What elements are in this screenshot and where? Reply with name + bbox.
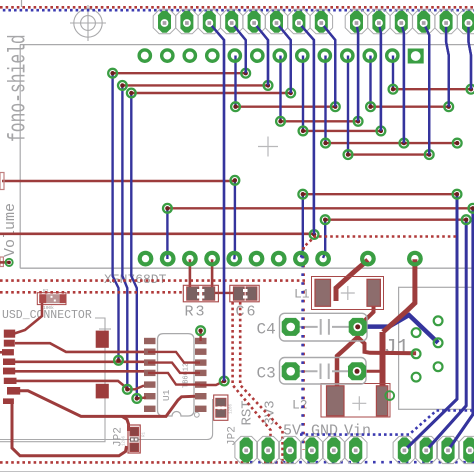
via V31 (123, 385, 132, 394)
connector USD pads (2, 330, 20, 404)
board outline bottom edge (20, 267, 474, 269)
wire pad d11 blue (277, 23, 291, 93)
resistor R2 (37, 288, 66, 311)
pad top header pin 7 (288, 10, 311, 34)
wire ring5 blue (234, 56, 236, 107)
wire sd7 red (20, 391, 195, 417)
via V20 (344, 150, 353, 159)
wire pad a1 blue (379, 23, 381, 131)
usd connector outline right (0, 318, 105, 442)
wire net8 red (303, 130, 381, 132)
wire volume via stub red (0, 261, 9, 264)
wire pad d13 blue (321, 23, 335, 107)
wire U1 jog3 red (148, 373, 200, 385)
wire ring Vin down red (383, 259, 415, 332)
keepout mid blue (301, 251, 304, 448)
ic U1 pin1 dot (194, 412, 199, 417)
svg-text:R3: R3 (185, 304, 207, 321)
origin cross A (258, 137, 278, 157)
wire ring9 blue (324, 56, 326, 144)
pad mid header pin 1 (140, 253, 152, 265)
svg-text:L2: L2 (292, 398, 308, 413)
pad socket row pin 2 (162, 50, 173, 61)
via V25 (163, 204, 172, 213)
pad J1 pin 6 (434, 362, 443, 371)
via V24 (453, 190, 462, 199)
resistor R5 (214, 395, 228, 420)
wire pad a2 blue (401, 23, 404, 143)
via V10 (331, 102, 340, 111)
pad mid header pin 4 (206, 253, 218, 265)
via V3 (118, 81, 127, 90)
svg-text:JP2: JP2 (227, 426, 239, 446)
pad mid header pin 3 (184, 253, 196, 265)
via V27 (321, 215, 330, 224)
pad bottom header2 pin 3 (437, 436, 460, 463)
wire pad d8 blue (209, 23, 224, 381)
wire left bus2 blue (122, 85, 127, 389)
pad J1 pin 3 (412, 373, 421, 382)
usd connector outline tick (99, 328, 111, 330)
pad socket row pin 9 (319, 50, 330, 61)
pad top header2 pin 2 (368, 10, 391, 34)
wire right bus1 blue (404, 194, 457, 450)
wire pad a3 blue (424, 23, 430, 155)
pad socket square pin 13 (408, 49, 424, 64)
pad holes bottom (401, 447, 452, 455)
via V12 (444, 102, 453, 111)
wire pad d10 blue (254, 23, 268, 85)
via V22 (231, 176, 240, 185)
pad mid header pin 8 (295, 253, 307, 265)
wire bar to J1 pin red (358, 337, 416, 353)
svg-text:1206: 1206 (123, 435, 127, 446)
wire volume red (2, 180, 235, 183)
wire mid2 blue (301, 194, 303, 257)
via V11 (366, 102, 375, 111)
board outline left edge (19, 45, 21, 269)
jp2 outline (0, 399, 213, 440)
via V33 (220, 377, 229, 386)
wire C4 to J1 blue (358, 315, 438, 343)
wire via to U1 p7 red (137, 396, 146, 399)
via V15 (299, 126, 308, 135)
pad top header pin 4 (220, 10, 243, 34)
wire net14 red (0, 233, 314, 236)
keepout top red (0, 6, 474, 9)
wire net10 red (348, 153, 429, 155)
pad top header2 pin 5 (435, 10, 458, 34)
wire U1 via stub red (199, 331, 201, 341)
wire bottom bus overlay (404, 399, 473, 450)
wire C3 to bar red (357, 370, 380, 373)
via V19 (453, 139, 462, 148)
fiducial target mark (70, 5, 106, 41)
pad J1 pin 4 (434, 316, 443, 325)
wire power bar red (380, 332, 386, 396)
capacitor C3 symbol (299, 364, 348, 380)
pad socket row pin 5 (229, 50, 240, 61)
wire net2 red (122, 84, 268, 86)
via V16 (377, 126, 386, 135)
wire ring to L1 red (336, 260, 368, 301)
svg-text:5V: 5V (283, 423, 301, 440)
wire net3 red (131, 92, 290, 94)
wire left bus1 blue (113, 73, 119, 360)
svg-text:3V3: 3V3 (263, 400, 279, 425)
capacitor C3 outline (280, 358, 367, 385)
wire U1 jog1 red (148, 352, 200, 363)
via V5 (127, 89, 136, 98)
pad bottom header pin 1 (235, 436, 258, 463)
svg-text:Volume: Volume (2, 203, 19, 257)
via volume (6, 259, 13, 266)
wire C4 to L2 red (337, 337, 358, 389)
wire R2 to SD1 red (14, 303, 42, 334)
pad socket row pin 12 (387, 50, 398, 61)
wire sd2 red (15, 343, 144, 352)
svg-text:100k: 100k (43, 305, 54, 311)
pad volume bottom (0, 257, 3, 267)
pad mid header pin 6 (251, 253, 263, 265)
via V6 (286, 89, 295, 98)
pad top header2 pin 4 (412, 10, 435, 34)
capacitor C6 (230, 285, 259, 302)
via V21 (425, 150, 434, 159)
wire pad d9 blue (232, 23, 246, 73)
wire ring R3b red (211, 259, 214, 288)
board outline top edge (20, 44, 474, 46)
wire net13 red (325, 218, 466, 220)
wire pad a4 blue (446, 23, 449, 107)
wire net1 red (113, 72, 246, 74)
pad C3 left (282, 362, 300, 380)
pad socket row pin 1 (139, 50, 150, 61)
inductor L2 (321, 384, 390, 418)
pad L2 via (385, 391, 394, 400)
pad top header pin 5 (243, 10, 266, 34)
pad mid header pin 10 (362, 253, 374, 265)
pad mid header pin 2 (162, 253, 174, 265)
wire pad a5 blue (469, 23, 472, 89)
via V2 (241, 69, 250, 78)
pad C4 right (349, 318, 367, 336)
wire ring10 blue (347, 56, 349, 155)
pad bottom header pin 5 (323, 436, 346, 463)
wire ring8 blue (302, 56, 304, 131)
svg-text:J1: J1 (384, 337, 409, 360)
wire mid3 blue (323, 220, 325, 258)
wire sd5 red (15, 370, 144, 373)
ic U1 pads (144, 338, 207, 412)
via V28 (462, 215, 471, 224)
pad bottom header pin 3 (279, 436, 302, 463)
pad mid header pin 7 (273, 253, 285, 265)
keepout bottom red (0, 461, 250, 464)
ic U1 body (158, 334, 195, 416)
capacitor C4 outline (280, 313, 368, 341)
connector J1 outline (399, 287, 474, 409)
via V9 (231, 102, 240, 111)
wire ring7 blue (279, 56, 281, 122)
wire ring12 blue (392, 56, 394, 90)
pad top header pin 8 (310, 10, 333, 34)
wire net5 red (236, 105, 336, 107)
wire sd4 red (15, 360, 144, 363)
keepout right red v (302, 247, 305, 450)
wire C4 down red (356, 327, 360, 337)
wire top pad traces overlay (209, 23, 471, 381)
wire sd3 stub red (0, 351, 13, 354)
pad bottom header pin 2 (257, 436, 280, 463)
pad socket row pin 8 (297, 50, 308, 61)
pad J1 pin 1 (412, 328, 421, 337)
keepout J1 blue (300, 411, 474, 435)
resistor R1 (128, 425, 140, 453)
pad top header pin 2 (176, 10, 199, 34)
via V4 (264, 81, 273, 90)
svg-text:U1: U1 (161, 389, 172, 401)
svg-text:1206: 1206 (230, 403, 234, 414)
wire right bus3 blue (448, 208, 473, 450)
pad bottom header pin 6 (344, 436, 367, 463)
pad socket row pin 7 (274, 50, 285, 61)
board outline top stub (21, 0, 23, 7)
keepout mid1 red (0, 279, 306, 282)
inductor L1 (312, 277, 384, 310)
keepout C6a red (233, 302, 271, 462)
wire net9 red (326, 142, 458, 144)
via V30 (114, 356, 123, 365)
pad socket row pin 10 (342, 50, 353, 61)
via V34 (196, 326, 205, 335)
pad J1 pin 2 (412, 349, 421, 358)
svg-text:C4: C4 (257, 321, 276, 339)
wire sd6 red (15, 381, 127, 389)
via V23 (298, 190, 307, 199)
wire left bus3 blue (131, 93, 137, 398)
svg-text:C3: C3 (257, 365, 276, 383)
pad C4 left (282, 318, 300, 336)
wire pad a0 blue (357, 23, 359, 121)
keepout top blue (3, 9, 474, 12)
pad socket row pin 6 (252, 50, 263, 61)
svg-text:GND: GND (311, 423, 338, 440)
via V18 (400, 139, 409, 148)
pad socket row pin 11 (364, 50, 375, 61)
via V29 (310, 230, 319, 239)
wire net12 red (167, 207, 473, 209)
keepout bottom blue (250, 461, 474, 464)
wire net6 red (371, 105, 449, 107)
pad bottom header pin 4 (301, 436, 324, 463)
wire via to U1 p6 red (127, 386, 144, 390)
resistor R3 (183, 285, 218, 302)
pad sd big2 (96, 384, 109, 399)
pad top header2 pin 6 (457, 10, 474, 34)
wire R3 to C6 red (215, 292, 233, 294)
wire net11 red (303, 193, 457, 195)
pad mid header pin 11 (409, 253, 421, 265)
svg-text:C6: C6 (236, 304, 258, 321)
svg-text:fono-shield: fono-shield (6, 34, 33, 142)
pad mid header pin 9 (317, 253, 329, 265)
via V14 (354, 117, 363, 126)
via V8 (467, 85, 474, 94)
pad top header pin 1 (153, 10, 176, 34)
wire net4 red (393, 88, 471, 90)
pad volume top (0, 173, 4, 190)
pad mid header pin 5 (229, 253, 241, 265)
pad bottom header2 pin 2 (415, 436, 438, 463)
keepout mid2 red (0, 291, 183, 294)
via V13 (276, 117, 285, 126)
pad J1 pin 5 (434, 338, 443, 347)
wire via224 to U1 red (200, 381, 224, 385)
pad bottom header2 pin 4 (459, 436, 474, 463)
pad C3 right (348, 362, 366, 380)
pad socket row pin 4 (207, 50, 218, 61)
board outline lower edge (0, 471, 474, 473)
keepout right red (304, 237, 456, 248)
wire R1 top feed red (122, 416, 129, 431)
wire L1 to C4 red (360, 305, 374, 326)
via V7 (389, 85, 398, 94)
capacitor C4 symbol (299, 319, 349, 335)
svg-text:R1: R1 (143, 431, 147, 437)
pad top header pin 3 (198, 10, 221, 34)
wire sd8 red (12, 404, 127, 456)
pad bottom header2 pin 1 (393, 436, 416, 463)
pad top header2 pin 1 (345, 10, 368, 34)
via V1 (108, 69, 117, 78)
via V26 (469, 204, 474, 213)
pad top header2 pin 3 (390, 10, 413, 34)
wire ring11 blue (369, 56, 371, 107)
via V17 (321, 139, 330, 148)
via V32 (132, 394, 141, 403)
pad top header pin 6 (265, 10, 288, 34)
svg-text:Vin: Vin (344, 423, 371, 440)
wire right bus2 blue (426, 220, 466, 451)
pad socket row pin 3 (184, 50, 195, 61)
pad sd big1 (96, 331, 109, 348)
svg-text:L1: L1 (294, 287, 310, 302)
wire ring R3a red (189, 259, 192, 288)
wire mid1 blue (233, 180, 236, 259)
pad holes top (205, 19, 472, 27)
wire pad d12 blue (299, 23, 314, 235)
keepout C6b red (240, 302, 282, 462)
wire U1 jog2 red (148, 363, 200, 373)
wire mid4 blue (166, 208, 168, 259)
wire net7 red (281, 120, 359, 122)
